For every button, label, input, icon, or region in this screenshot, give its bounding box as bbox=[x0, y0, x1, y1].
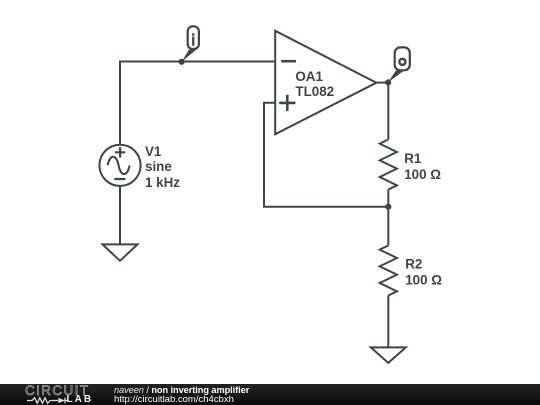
svg-text:1 kHz: 1 kHz bbox=[145, 175, 180, 190]
svg-text:TL082: TL082 bbox=[295, 84, 334, 99]
svg-text:R2: R2 bbox=[405, 256, 422, 271]
svg-text:V1: V1 bbox=[145, 144, 162, 159]
svg-text:R1: R1 bbox=[404, 151, 422, 166]
svg-text:100 Ω: 100 Ω bbox=[404, 167, 441, 182]
svg-text:100 Ω: 100 Ω bbox=[405, 272, 442, 287]
svg-text:OA1: OA1 bbox=[295, 69, 323, 84]
svg-text:sine: sine bbox=[145, 159, 172, 174]
